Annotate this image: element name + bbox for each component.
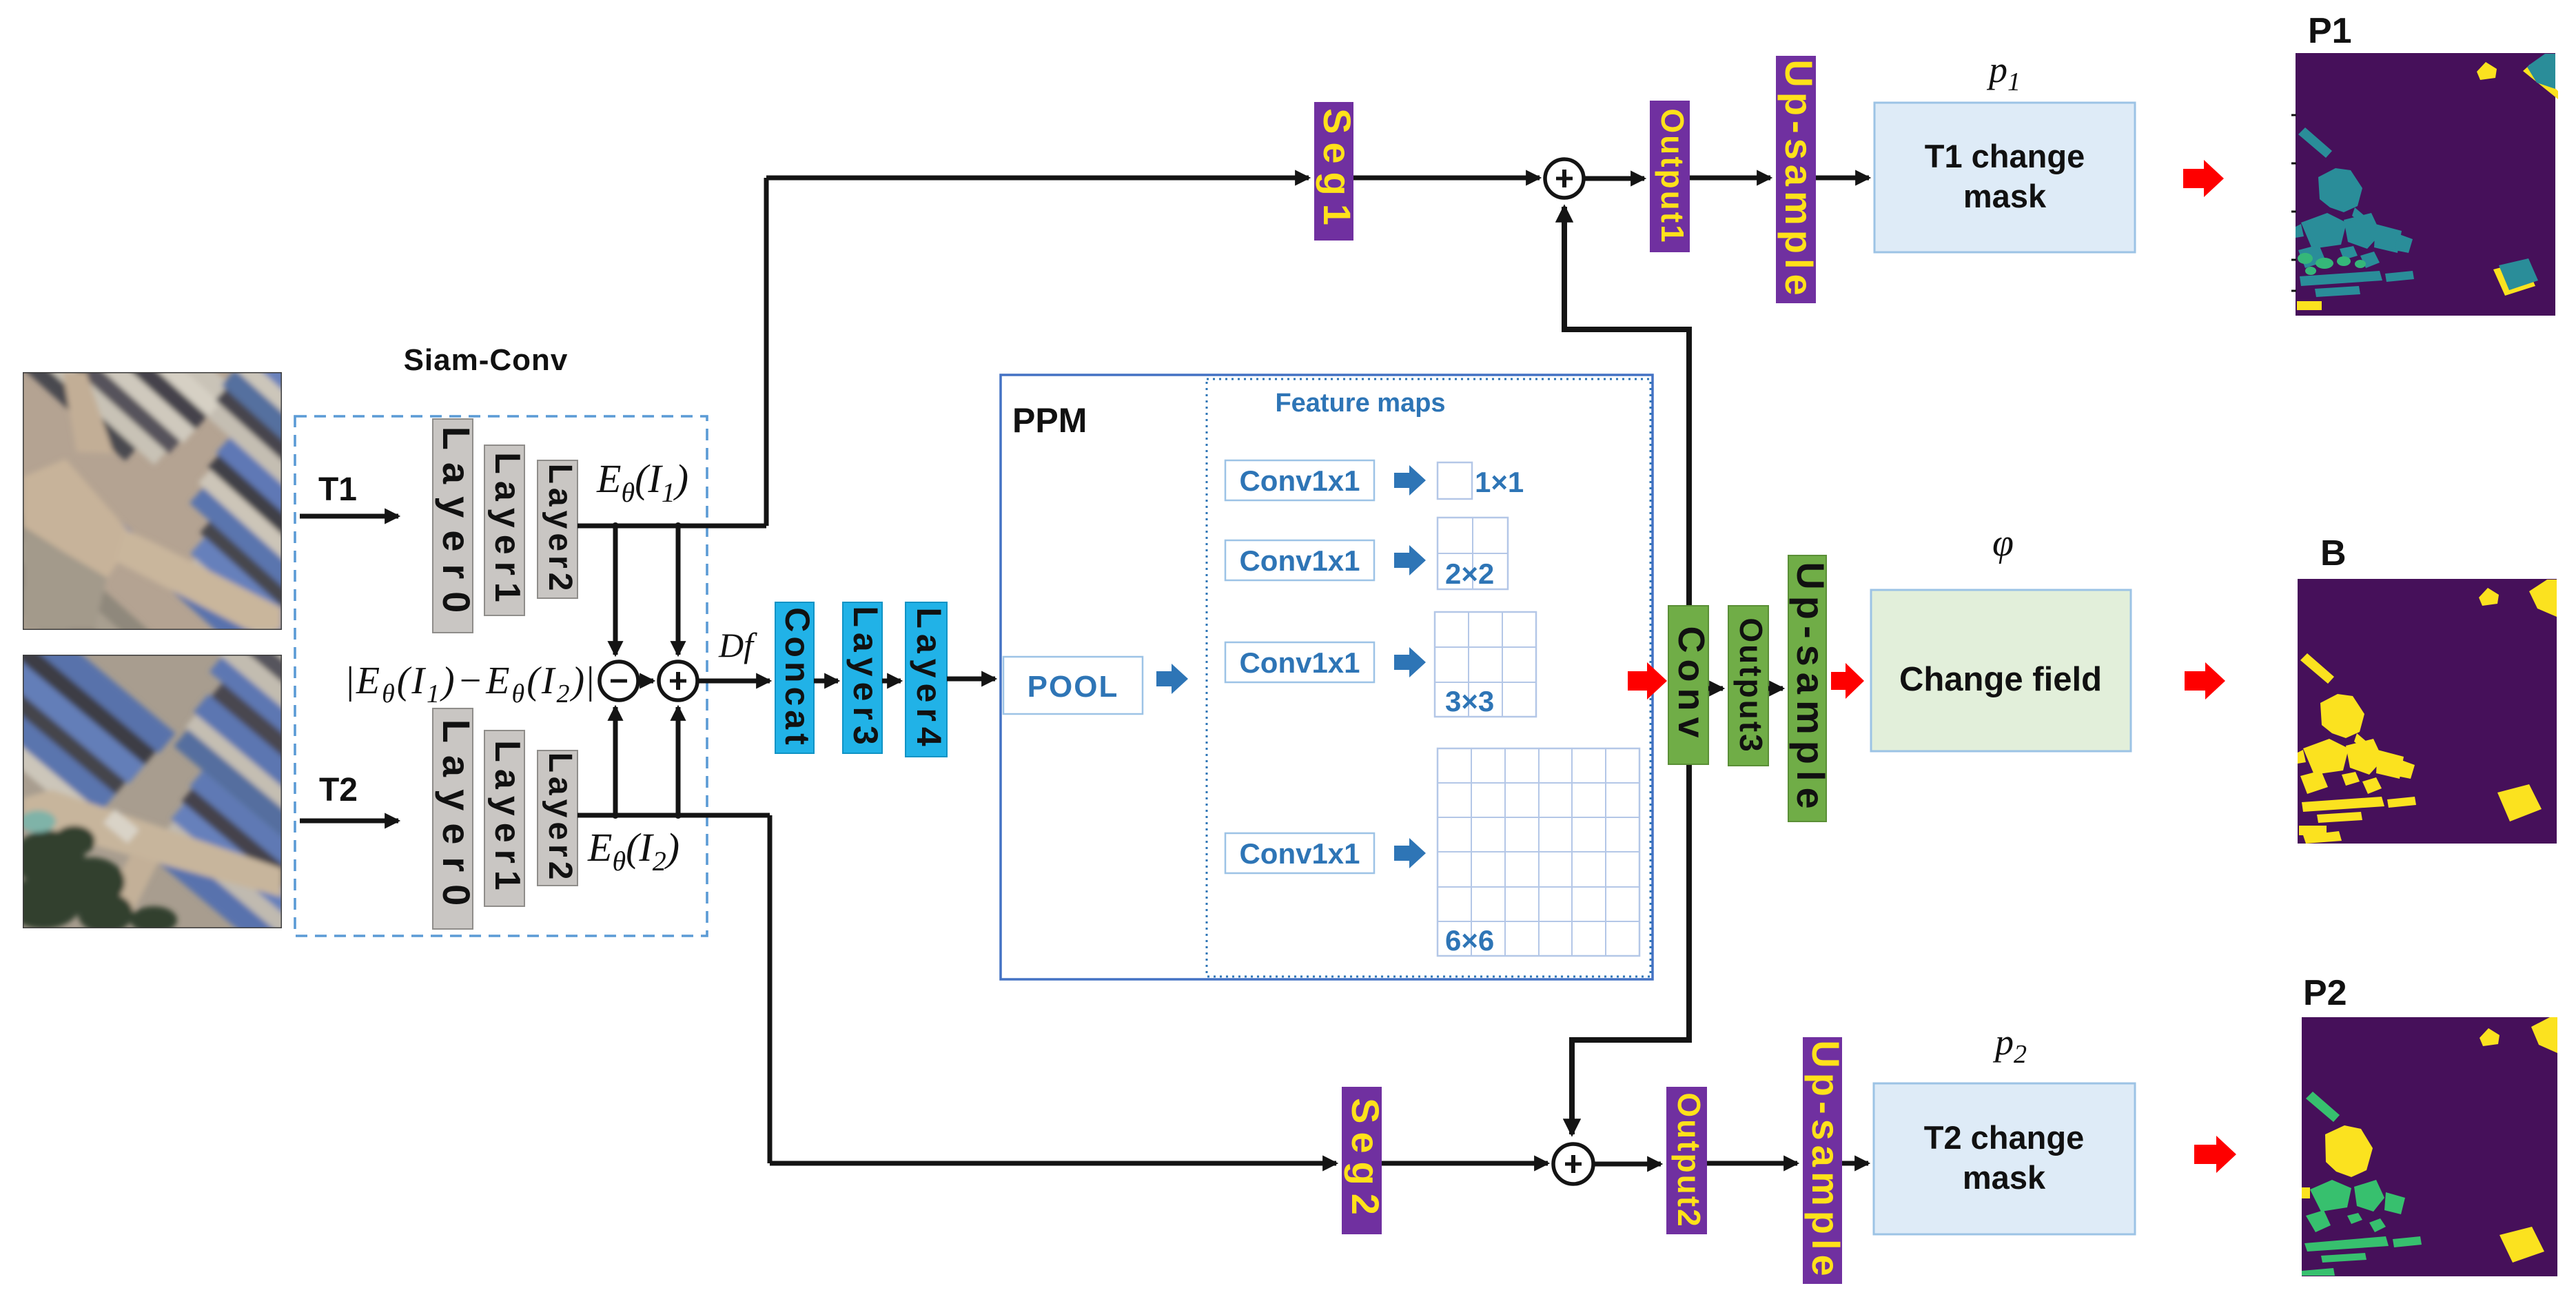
svg-text:B: B bbox=[2320, 533, 2347, 573]
grid 6x6 bbox=[1438, 748, 1639, 956]
red arrow to P1 bbox=[2183, 160, 2224, 197]
svg-text:Layer2: Layer2 bbox=[542, 464, 578, 595]
block Conv1x1 (1) bbox=[1225, 460, 1374, 500]
block Output3 (green) bbox=[1728, 606, 1769, 766]
svg-text:Seg1: Seg1 bbox=[1316, 108, 1359, 234]
svg-text:Conv: Conv bbox=[1670, 626, 1712, 744]
blue arrow (3) bbox=[1394, 647, 1426, 677]
output mask B bbox=[2298, 579, 2557, 844]
wire plus2 to Output2 bbox=[1593, 1162, 1661, 1167]
blue arrow (4) bbox=[1394, 838, 1426, 868]
Feature maps dotted box bbox=[1207, 379, 1650, 977]
wire Concat to Layer3 bbox=[814, 679, 838, 684]
svg-text:mask: mask bbox=[1963, 1159, 2046, 1196]
svg-text:6×6: 6×6 bbox=[1445, 924, 1494, 957]
svg-text:Layer1: Layer1 bbox=[487, 452, 527, 609]
block T2 change mask bbox=[1874, 1083, 2135, 1234]
svg-text:Layer0: Layer0 bbox=[435, 427, 478, 626]
wire E1 drop into plus bbox=[676, 526, 681, 655]
svg-text:Siam-Conv: Siam-Conv bbox=[404, 343, 569, 377]
svg-text:3×3: 3×3 bbox=[1445, 685, 1494, 717]
svg-text:1×1: 1×1 bbox=[1475, 466, 1524, 498]
satellite image T2 (input photo) bbox=[0, 473, 462, 981]
wire T1 input arrow bbox=[300, 514, 398, 519]
wire Up-sample1 to T1 change mask bbox=[1816, 176, 1869, 181]
block Conv (green) bbox=[1668, 606, 1712, 764]
svg-text:Up-sample: Up-sample bbox=[1777, 59, 1821, 300]
block Layer2 (T1 branch) bbox=[538, 460, 578, 598]
svg-text:P2: P2 bbox=[2303, 973, 2347, 1013]
node plus circle (bottom path) bbox=[1553, 1144, 1593, 1184]
svg-text:Seg2: Seg2 bbox=[1344, 1098, 1387, 1223]
svg-text:T1 change: T1 change bbox=[1925, 138, 2085, 174]
block Up-sample (bottom) bbox=[1803, 1037, 1848, 1284]
blue arrow after POOL bbox=[1156, 664, 1188, 694]
wire Output2 to Up-sample2 bbox=[1707, 1161, 1797, 1166]
block Conv1x1 (2) bbox=[1225, 540, 1374, 580]
svg-text:PPM: PPM bbox=[1012, 401, 1087, 440]
svg-text:T2: T2 bbox=[319, 772, 358, 808]
svg-text:T1: T1 bbox=[318, 471, 357, 508]
grid 2x2 bbox=[1438, 518, 1508, 589]
wire conv-branch feedback into plus1 and plus2 bbox=[1564, 207, 1689, 1134]
svg-text:Output1: Output1 bbox=[1655, 108, 1690, 244]
red arrow to P2 bbox=[2194, 1136, 2236, 1173]
svg-text:Output2: Output2 bbox=[1671, 1092, 1707, 1228]
block Concat bbox=[775, 602, 817, 753]
block Seg2 bbox=[1342, 1087, 1387, 1234]
block Conv1x1 (3) bbox=[1225, 642, 1374, 682]
wire Seg1 to plus1 bbox=[1353, 176, 1540, 181]
wire E1 drop into minus bbox=[613, 526, 618, 655]
wire E2 feature line bbox=[577, 815, 770, 1163]
PPM box bbox=[1001, 375, 1653, 979]
wire Up-sample2 to T2 change mask bbox=[1842, 1161, 1868, 1166]
block Layer1 (T2 branch) bbox=[484, 731, 527, 906]
grid 1x1 bbox=[1438, 462, 1472, 499]
output mask P1 bbox=[2291, 53, 2558, 316]
block Layer0 (T1 branch) bbox=[433, 419, 478, 633]
wire T2 input arrow bbox=[300, 819, 398, 824]
svg-text:P1: P1 bbox=[2308, 11, 2352, 51]
block Layer0 (T2 branch) bbox=[433, 708, 478, 929]
svg-text:Layer1: Layer1 bbox=[487, 740, 527, 897]
block Up-sample (top) bbox=[1776, 56, 1821, 303]
svg-text:Up-sample: Up-sample bbox=[1789, 562, 1832, 815]
svg-text:Output3: Output3 bbox=[1733, 617, 1769, 753]
svg-text:Concat: Concat bbox=[778, 607, 817, 748]
satellite image T1 (input photo) bbox=[0, 174, 464, 768]
svg-text:φ: φ bbox=[1992, 522, 2014, 564]
node plus circle (top path) bbox=[1545, 159, 1584, 198]
svg-text:T2 change: T2 change bbox=[1924, 1119, 2084, 1156]
block T1 change mask bbox=[1874, 103, 2135, 252]
blue arrow (1) bbox=[1394, 465, 1426, 496]
block Seg1 bbox=[1314, 102, 1359, 241]
red arrow Up-sample3 to Change field bbox=[1831, 663, 1864, 699]
svg-text:Df: Df bbox=[718, 626, 757, 664]
wire Conv to Output3 bbox=[1708, 686, 1723, 691]
wire plus1 to Output1 bbox=[1584, 176, 1644, 181]
wire E2 rise into plus bbox=[676, 707, 681, 815]
wire minus to plus bbox=[640, 679, 653, 684]
svg-text:Conv1x1: Conv1x1 bbox=[1239, 646, 1360, 679]
wire Output1 to Up-sample1 bbox=[1690, 176, 1770, 181]
grid 3x3 bbox=[1435, 612, 1536, 717]
wire E1 feature line bbox=[577, 178, 766, 526]
junction dots bbox=[612, 522, 682, 819]
svg-text:Layer3: Layer3 bbox=[846, 606, 885, 750]
svg-text:Conv1x1: Conv1x1 bbox=[1239, 544, 1360, 577]
wire Output3 to Up-sample3 bbox=[1768, 686, 1783, 691]
svg-text:Layer4: Layer4 bbox=[910, 607, 948, 751]
red arrow PPM to Conv bbox=[1628, 662, 1667, 699]
svg-text:Layer0: Layer0 bbox=[435, 719, 478, 919]
wire Layer4 to PPM bbox=[947, 677, 995, 682]
block POOL bbox=[1003, 657, 1143, 714]
svg-text:POOL: POOL bbox=[1028, 670, 1119, 704]
block Change field bbox=[1871, 590, 2131, 751]
red arrow Change field to B bbox=[2185, 662, 2225, 699]
svg-text:2×2: 2×2 bbox=[1445, 558, 1494, 590]
block Conv1x1 (4) bbox=[1225, 833, 1374, 873]
node minus circle bbox=[600, 662, 638, 700]
svg-text:mask: mask bbox=[1963, 178, 2047, 214]
svg-text:Conv1x1: Conv1x1 bbox=[1239, 464, 1360, 497]
svg-text:Change field: Change field bbox=[1899, 661, 2102, 698]
svg-text:Layer2: Layer2 bbox=[542, 753, 578, 884]
node plus circle (Df) bbox=[659, 662, 697, 700]
wire Seg2 to plus2 bbox=[1382, 1161, 1548, 1166]
Siam-Conv dashed box bbox=[295, 416, 707, 936]
output mask P2 bbox=[2302, 1017, 2557, 1276]
svg-text:Eθ(I1): Eθ(I1) bbox=[596, 456, 688, 508]
block Layer4 bbox=[906, 602, 948, 757]
wire top path from E1 junction to Seg1 bbox=[766, 176, 1309, 181]
svg-text:Conv1x1: Conv1x1 bbox=[1239, 837, 1360, 870]
block Layer2 (T2 branch) bbox=[538, 750, 578, 886]
svg-text:Feature maps: Feature maps bbox=[1275, 389, 1445, 418]
block Output1 bbox=[1650, 101, 1690, 252]
wire E2 rise into minus bbox=[613, 707, 618, 815]
wire plus to Concat bbox=[697, 679, 770, 684]
block Layer1 (T1 branch) bbox=[484, 445, 527, 615]
block Layer3 bbox=[843, 602, 885, 753]
wire bottom path from E2 junction to Seg2 bbox=[770, 1161, 1336, 1166]
svg-text:Up-sample: Up-sample bbox=[1804, 1040, 1848, 1280]
blue arrow (2) bbox=[1394, 545, 1426, 575]
block Output2 bbox=[1666, 1087, 1707, 1234]
wire Layer3 to Layer4 bbox=[882, 679, 901, 684]
svg-text:Eθ(I2): Eθ(I2) bbox=[587, 825, 679, 877]
block Up-sample (green) bbox=[1788, 555, 1832, 821]
